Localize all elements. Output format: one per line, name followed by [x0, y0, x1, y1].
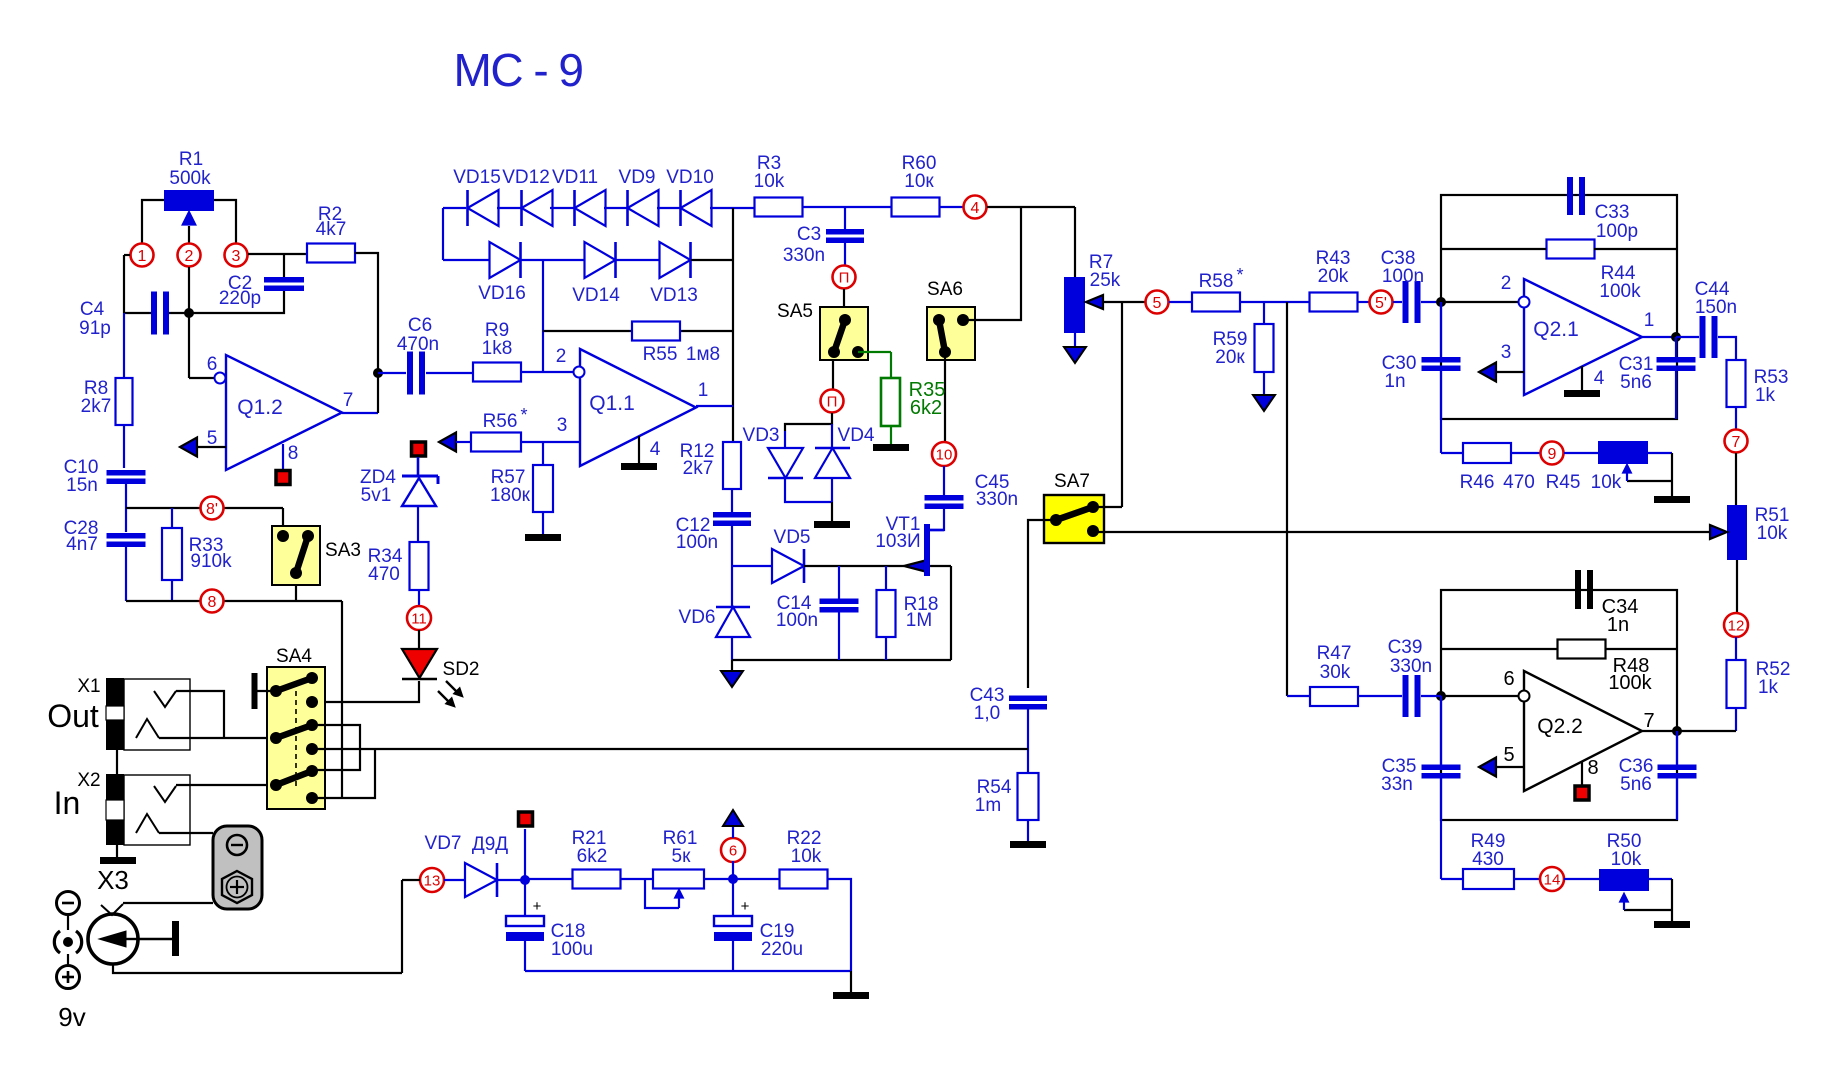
svg-text:7: 7: [1643, 710, 1654, 732]
node 7: [1725, 430, 1748, 453]
wire: [1736, 560, 1738, 613]
node 2: [178, 244, 201, 267]
svg-text:3: 3: [557, 415, 568, 436]
svg-text:R45: R45: [1546, 472, 1581, 493]
wire: [1286, 302, 1288, 696]
wire: [248, 253, 284, 255]
diode VD13: [660, 242, 691, 278]
wire: [284, 253, 307, 255]
svg-text:9: 9: [1548, 446, 1557, 463]
svg-text:R56: R56: [483, 411, 518, 432]
svg-text:SA6: SA6: [927, 279, 963, 300]
svg-text:91p: 91p: [79, 318, 111, 339]
svg-text:8: 8: [208, 594, 217, 611]
svg-text:Out: Out: [47, 698, 99, 734]
node П 2: [821, 390, 844, 413]
svg-text:8': 8': [206, 501, 218, 518]
line R44: [1441, 248, 1546, 250]
capacitor C12: [731, 489, 733, 513]
supply arrow: [731, 660, 733, 671]
wire: [295, 585, 297, 601]
capacitor C6: [378, 372, 406, 374]
wire: [188, 267, 190, 313]
power square: [524, 829, 526, 880]
svg-text:VD16: VD16: [478, 283, 526, 304]
capacitor C10: [107, 470, 146, 476]
wire: [1441, 695, 1519, 697]
node junction: [1672, 726, 1682, 736]
feedback box Q2.1: [1441, 195, 1677, 419]
node junction: [184, 308, 194, 318]
svg-text:+: +: [533, 898, 542, 915]
svg-text:100p: 100p: [1596, 221, 1638, 242]
node 1: [131, 244, 154, 267]
node 8': [201, 497, 224, 520]
svg-text:SA5: SA5: [777, 301, 813, 322]
svg-text:VD7: VD7: [425, 833, 462, 854]
svg-text:1: 1: [698, 380, 709, 401]
pin 5 arrow: [1479, 758, 1496, 777]
svg-text:5: 5: [207, 428, 218, 449]
wire: [844, 243, 846, 265]
capacitor C2: [264, 277, 304, 283]
wire row2: [443, 259, 489, 261]
svg-text:1m: 1m: [975, 795, 1001, 816]
svg-text:In: In: [54, 785, 81, 821]
diode VD3: [768, 448, 803, 478]
zener diode ZD4: [417, 457, 420, 476]
R50 wiper: [1648, 878, 1672, 880]
svg-text:SA3: SA3: [325, 540, 361, 561]
node junction: [520, 875, 530, 885]
svg-text:9v: 9v: [58, 1002, 85, 1032]
resistor R57: [542, 442, 544, 465]
battery connector: [213, 826, 262, 909]
svg-text:Q1.2: Q1.2: [237, 396, 283, 419]
svg-text:1м8: 1м8: [686, 344, 720, 365]
svg-text:П: П: [839, 269, 850, 286]
resistor R33: [171, 508, 173, 528]
svg-text:330n: 330n: [976, 489, 1018, 510]
wire: [1564, 878, 1599, 880]
wire: [939, 206, 963, 208]
wire: [116, 750, 118, 774]
node 9: [1541, 442, 1564, 465]
wire: [802, 206, 892, 208]
diode VD12: [522, 190, 553, 226]
wire: [497, 879, 525, 881]
node junction: [1027, 748, 1029, 750]
wire: [987, 206, 1075, 208]
wire: [525, 878, 573, 880]
wire: [731, 526, 733, 607]
svg-text:10: 10: [936, 446, 953, 463]
svg-text:500k: 500k: [169, 168, 211, 189]
wire node 8' rail: [126, 507, 283, 509]
svg-text:R1: R1: [179, 149, 203, 170]
pin 4 ground: [1581, 366, 1583, 390]
wire: [312, 749, 375, 798]
node 10: [932, 442, 956, 466]
ground: [850, 971, 852, 992]
wire: [189, 377, 218, 379]
capacitor C43: [1009, 696, 1047, 702]
jack X2: [124, 775, 190, 845]
svg-text:430: 430: [1472, 849, 1504, 870]
svg-text:П: П: [827, 393, 838, 410]
svg-text:6: 6: [729, 842, 737, 859]
capacitor C18: [524, 880, 526, 916]
wire: [283, 254, 285, 278]
resistor R47: [1287, 695, 1310, 697]
svg-text:5': 5': [1375, 295, 1387, 312]
wire: [1027, 709, 1029, 773]
pin 3 wire: [521, 441, 580, 443]
wire: [342, 412, 378, 414]
svg-text:10k: 10k: [1611, 849, 1642, 870]
wire: [827, 879, 851, 971]
resistor R56: [439, 433, 456, 452]
wire node 8 rail: [126, 600, 342, 602]
svg-text:SA4: SA4: [276, 646, 312, 667]
svg-text:103И: 103И: [875, 531, 920, 552]
long wire: [312, 748, 1028, 750]
svg-text:C33: C33: [1595, 202, 1630, 223]
R45 wiper: [1648, 452, 1672, 454]
svg-text:VD15: VD15: [453, 167, 501, 188]
wire: [950, 566, 952, 660]
wire: [522, 371, 573, 373]
pin 4 ground: [638, 436, 640, 463]
svg-text:SD2: SD2: [443, 659, 480, 680]
wire: [142, 200, 164, 243]
diode VD16: [490, 242, 521, 278]
battery plug 9v: [57, 892, 80, 915]
capacitor C3: [844, 207, 846, 230]
wire: [123, 313, 125, 378]
R7 wiper: [1086, 295, 1103, 309]
svg-text:14: 14: [1544, 871, 1561, 888]
svg-text:C39: C39: [1388, 637, 1423, 658]
svg-text:C4: C4: [80, 299, 105, 320]
node junction: [373, 368, 383, 378]
wire: [1169, 301, 1192, 303]
svg-text:VD13: VD13: [650, 285, 698, 306]
node 3: [225, 244, 248, 267]
svg-text:1: 1: [1644, 310, 1655, 331]
diode VD9: [628, 190, 659, 226]
wire: [1093, 506, 1122, 508]
resistor R34: [410, 542, 429, 590]
svg-text:470: 470: [368, 564, 400, 585]
bottom rail: [525, 970, 851, 972]
svg-text:5n6: 5n6: [1620, 774, 1652, 795]
capacitor C45: [943, 466, 945, 495]
svg-text:C6: C6: [408, 315, 432, 336]
capacitor C33: [1567, 177, 1573, 215]
svg-text:5n6: 5n6: [1620, 372, 1652, 393]
wire: [224, 737, 276, 739]
svg-text:6: 6: [1503, 668, 1514, 690]
wire: [341, 601, 343, 798]
op-amp Q2.1: [1524, 279, 1642, 395]
svg-text:X2: X2: [77, 770, 100, 791]
capacitor C19: [732, 879, 734, 916]
bottom rail: [732, 659, 951, 661]
wire: [1735, 407, 1737, 429]
diode VD14: [585, 242, 616, 278]
node 4: [964, 196, 987, 219]
wire: [282, 508, 284, 526]
pin 1 output: [696, 405, 733, 407]
pin 3 arrow: [1479, 363, 1496, 382]
svg-text:1,0: 1,0: [974, 703, 1000, 724]
svg-text:1n: 1n: [1384, 371, 1405, 392]
wire: [1441, 301, 1519, 303]
potentiometer R1: [164, 190, 214, 211]
switch SA6: [927, 307, 975, 360]
LED arrows: [446, 681, 456, 691]
wire: [442, 208, 444, 260]
node 14: [1540, 867, 1564, 891]
chassis bar: [252, 673, 258, 709]
wire: [1357, 301, 1369, 303]
plug tip: [139, 938, 172, 940]
switch SA5: [820, 307, 868, 360]
pin 5 arrow: [180, 438, 197, 457]
node 11: [407, 606, 431, 630]
potentiometer R51: [1727, 505, 1747, 560]
potentiometer R45: [1598, 441, 1648, 464]
capacitor C14: [838, 566, 840, 599]
node 5': [1370, 291, 1393, 314]
wire: [125, 484, 127, 532]
svg-text:100k: 100k: [1599, 281, 1641, 302]
svg-text:2k7: 2k7: [683, 458, 714, 479]
svg-text:180к: 180к: [490, 485, 531, 506]
battery circle: [88, 914, 138, 964]
svg-text:Q2.1: Q2.1: [1533, 318, 1579, 341]
wire: [1564, 452, 1598, 454]
wire: [944, 352, 946, 443]
pin 1 output: [1642, 336, 1676, 338]
resistor R35 green: [858, 351, 891, 353]
svg-text:VD11: VD11: [552, 167, 598, 188]
wire row1: [443, 207, 466, 209]
svg-text:MC - 9: MC - 9: [454, 44, 583, 96]
pin 8 power square: [282, 444, 284, 470]
switch SA7: [1044, 495, 1104, 543]
resistor R8: [116, 378, 133, 425]
resistor R9: [473, 363, 521, 382]
ground: [542, 512, 544, 534]
node 6: [721, 838, 745, 862]
trimmer R61: [653, 870, 704, 889]
supply arrow up: [732, 826, 734, 838]
op-amp Q1.1: [580, 349, 696, 466]
capacitor C39: [1358, 695, 1402, 697]
svg-text:VD14: VD14: [572, 285, 620, 306]
wire: [832, 360, 834, 390]
svg-text:8: 8: [288, 443, 299, 464]
svg-text:R55: R55: [643, 344, 678, 365]
capacitor C31: [1675, 337, 1677, 357]
wire: [125, 547, 127, 601]
resistor R48: [1558, 640, 1606, 659]
svg-text:Q1.1: Q1.1: [589, 392, 635, 415]
resistor R44: [1547, 240, 1595, 259]
resistor R54: [1018, 773, 1039, 820]
svg-text:5: 5: [1153, 295, 1162, 312]
svg-text:3: 3: [232, 248, 241, 265]
svg-text:*: *: [1236, 265, 1243, 285]
svg-text:470n: 470n: [397, 334, 439, 355]
svg-text:6k2: 6k2: [577, 846, 608, 867]
wire: [123, 255, 125, 313]
resistor R18: [885, 566, 887, 590]
svg-text:R46: R46: [1460, 472, 1495, 493]
svg-text:8: 8: [1587, 757, 1598, 779]
wire: [804, 565, 904, 567]
resistor R52: [1735, 637, 1737, 660]
wire: [620, 878, 653, 880]
node junction: [1671, 332, 1681, 342]
wire: [1121, 302, 1123, 507]
wire R55 branch: [542, 260, 544, 372]
svg-text:7: 7: [1732, 434, 1741, 451]
svg-text:5: 5: [1503, 744, 1514, 766]
svg-text:5v1: 5v1: [361, 485, 392, 506]
svg-text:2: 2: [556, 346, 567, 367]
op-amp Q1.2: [226, 355, 342, 470]
svg-text:VD6: VD6: [679, 607, 716, 628]
capacitor C44: [1676, 336, 1699, 338]
node junction: [728, 874, 738, 884]
svg-text:330n: 330n: [1390, 656, 1432, 677]
svg-text:3: 3: [1501, 342, 1512, 363]
svg-text:470: 470: [1503, 472, 1535, 493]
svg-text:20к: 20к: [1215, 347, 1245, 368]
svg-text:SA7: SA7: [1054, 471, 1090, 492]
svg-text:VD4: VD4: [838, 425, 875, 446]
svg-text:Д9Д: Д9Д: [472, 834, 508, 855]
transistor VT1: [904, 561, 925, 572]
svg-text:10k: 10k: [1591, 472, 1622, 493]
wire: [1735, 453, 1737, 505]
wire: [176, 784, 276, 786]
R51 wiper arrow: [1710, 525, 1727, 539]
wire: [101, 904, 123, 915]
resistor R12: [723, 442, 741, 489]
svg-text:4: 4: [650, 439, 661, 460]
capacitor C34 black: [1575, 570, 1581, 609]
ground X3: [116, 845, 118, 857]
diode VD4: [815, 448, 850, 478]
diode VD15: [468, 190, 499, 226]
potentiometer R7: [1064, 277, 1085, 333]
wire: [785, 478, 832, 502]
svg-text:100n: 100n: [1382, 266, 1424, 287]
wire: [732, 208, 734, 442]
svg-text:1: 1: [138, 248, 147, 265]
supply arrow: [1074, 333, 1076, 347]
capacitor C28: [107, 533, 146, 539]
svg-text:25k: 25k: [1090, 270, 1121, 291]
svg-text:100k: 100k: [1608, 672, 1652, 694]
resistor R3: [755, 198, 803, 217]
node 8: [201, 590, 224, 613]
node 5: [1146, 291, 1169, 314]
svg-text:R58: R58: [1199, 271, 1234, 292]
svg-text:R47: R47: [1317, 643, 1352, 664]
pin 8 power square: [1581, 762, 1583, 785]
ground: [1027, 820, 1029, 841]
potentiometer R50: [1599, 869, 1649, 891]
LED SD2: [418, 630, 420, 649]
wire: [785, 413, 832, 431]
svg-text:1k: 1k: [1755, 385, 1776, 406]
svg-text:7: 7: [343, 390, 354, 411]
svg-text:13: 13: [424, 872, 441, 889]
resistor R55: [632, 322, 680, 341]
wire: [123, 425, 125, 468]
svg-text:VD3: VD3: [743, 425, 780, 446]
supply arrow: [1253, 395, 1275, 411]
jack X1: [124, 679, 190, 750]
node П: [833, 266, 856, 289]
svg-text:33n: 33n: [1381, 774, 1413, 795]
svg-text:330n: 330n: [783, 245, 825, 266]
resistor R43: [1310, 293, 1358, 312]
diode VD11: [575, 190, 606, 226]
diode VD10: [681, 190, 712, 226]
wire: [159, 832, 213, 834]
capacitor C30: [1440, 302, 1442, 357]
svg-text:Q2.2: Q2.2: [1537, 715, 1583, 738]
svg-text:2k7: 2k7: [81, 396, 112, 417]
resistor R59: [1263, 302, 1265, 324]
resistor R46: [1440, 419, 1442, 453]
svg-text:220p: 220p: [219, 288, 261, 309]
wire: [417, 506, 419, 542]
wire: [189, 291, 284, 313]
wire: [843, 289, 845, 320]
wire: [124, 254, 130, 256]
wire: [355, 253, 378, 373]
svg-text:2: 2: [185, 248, 194, 265]
ground: [1654, 921, 1690, 928]
svg-text:150n: 150n: [1695, 297, 1737, 318]
long wire to R51: [1093, 531, 1710, 533]
wire: [176, 691, 224, 738]
svg-text:100n: 100n: [776, 610, 818, 631]
wire: [1028, 520, 1056, 688]
svg-text:6: 6: [207, 354, 218, 375]
line R48: [1441, 648, 1557, 650]
svg-text:1n: 1n: [1607, 614, 1629, 636]
resistor R60: [892, 198, 940, 217]
svg-text:+: +: [741, 898, 750, 915]
svg-text:1k: 1k: [1758, 677, 1779, 698]
svg-text:VD10: VD10: [666, 167, 714, 188]
wire: [963, 207, 1021, 320]
wire: [1074, 207, 1076, 277]
diode VD5: [732, 565, 772, 567]
svg-text:10k: 10k: [1757, 523, 1788, 544]
svg-text:220u: 220u: [761, 939, 803, 960]
wire: [1240, 301, 1310, 303]
capacitor C4: [124, 312, 151, 314]
